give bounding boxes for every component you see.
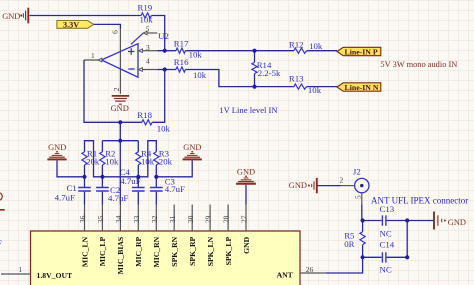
wire R1 top jog over to mid segment and R3 top jog bbox=[85, 141, 157, 177]
wire pin4 node down to R18 bbox=[152, 70, 165, 123]
svg-text:GND: GND bbox=[289, 181, 307, 190]
svg-text:32: 32 bbox=[150, 215, 159, 223]
junction C1 node bbox=[82, 175, 86, 179]
svg-text:20k: 20k bbox=[159, 157, 173, 167]
wire MIC_BIAS from bias node to pin 34 bbox=[119, 141, 121, 205]
svg-text:10k: 10k bbox=[157, 124, 171, 134]
wire R13 to port bbox=[307, 86, 337, 88]
svg-text:4.7uF: 4.7uF bbox=[55, 192, 75, 202]
svg-text:GND: GND bbox=[183, 143, 201, 152]
ground GND pin27 bbox=[236, 167, 256, 183]
svg-text:2.2-5k: 2.2-5k bbox=[258, 68, 281, 78]
wire R2 leads through C2 bbox=[101, 141, 103, 188]
J2 pin 2 bbox=[340, 175, 355, 185]
IC top pins 36..27 bbox=[85, 205, 247, 232]
svg-text:30: 30 bbox=[186, 215, 195, 223]
svg-text:R16: R16 bbox=[174, 57, 189, 67]
svg-text:4.7uF: 4.7uF bbox=[165, 184, 185, 194]
svg-text:GND: GND bbox=[48, 143, 66, 152]
svg-text:33: 33 bbox=[132, 215, 141, 223]
port Line-IN P bbox=[337, 47, 381, 56]
junction C2 node bbox=[100, 175, 104, 179]
wire C13 gnd node down to C14 right bbox=[406, 221, 408, 258]
junction R14 bottom bbox=[252, 85, 256, 89]
op-amp U1 pins 6 and 2 vertical pin line bbox=[119, 29, 121, 94]
wire R12 to port bbox=[307, 50, 337, 52]
resistor R14 bbox=[252, 51, 281, 87]
svg-text:5: 5 bbox=[146, 25, 150, 34]
resistor R16 bbox=[174, 57, 207, 80]
svg-text:1.8V_OUT: 1.8V_OUT bbox=[37, 271, 74, 280]
ground GND at J2 pin2 bbox=[289, 178, 317, 193]
svg-text:U2: U2 bbox=[158, 31, 169, 41]
svg-text:MIC_RP: MIC_RP bbox=[134, 236, 143, 266]
svg-text:2: 2 bbox=[340, 175, 344, 184]
svg-text:R13: R13 bbox=[289, 74, 304, 84]
pin 4 inverting input bbox=[139, 56, 158, 71]
IC pin 1 1.8V_OUT bbox=[1, 265, 73, 280]
wire R19 right corner down to pin3 node bbox=[151, 16, 164, 51]
svg-text:1: 1 bbox=[19, 265, 23, 274]
svg-text:NC: NC bbox=[380, 264, 392, 274]
svg-text:GND: GND bbox=[242, 236, 251, 254]
IC pin 26 ANT bbox=[277, 265, 326, 280]
svg-text:31: 31 bbox=[168, 215, 177, 223]
wire R16 jog down to Line-IN N row bbox=[185, 70, 294, 87]
resistor R3 bbox=[154, 149, 173, 167]
connector J2 bbox=[353, 167, 369, 193]
svg-text:35: 35 bbox=[96, 215, 105, 223]
junction C13 node bbox=[361, 218, 365, 222]
wire 3.3V to op-amp pin 6 bbox=[94, 24, 121, 28]
ground GND top-left power symbol bbox=[2, 8, 28, 24]
resistor R17 bbox=[174, 38, 203, 59]
svg-text:3: 3 bbox=[146, 43, 150, 52]
svg-text:4.7uF: 4.7uF bbox=[120, 176, 140, 186]
svg-text:3.3V: 3.3V bbox=[63, 20, 79, 29]
svg-text:R19: R19 bbox=[138, 2, 153, 12]
IC U1 block bbox=[31, 231, 301, 285]
pin 3 non-inverting input bbox=[139, 43, 158, 52]
svg-text:26: 26 bbox=[306, 265, 314, 274]
svg-text:GND: GND bbox=[448, 218, 466, 227]
wire pin3 node to R17 bbox=[158, 50, 176, 52]
svg-text:MIC_LN: MIC_LN bbox=[80, 236, 89, 267]
svg-text:2: 2 bbox=[112, 87, 121, 91]
resistor R19 bbox=[138, 2, 154, 24]
svg-text:10k: 10k bbox=[105, 157, 119, 167]
svg-text:0R: 0R bbox=[344, 239, 354, 249]
svg-text:10k: 10k bbox=[140, 15, 154, 25]
junction pin3 node bbox=[163, 49, 167, 53]
wire GND right to C3/R3 node bbox=[156, 160, 192, 176]
svg-text:NC: NC bbox=[380, 228, 392, 238]
svg-text:GND: GND bbox=[2, 12, 20, 21]
junction C14 node bbox=[361, 255, 365, 259]
svg-text:MIC_RN: MIC_RN bbox=[152, 236, 161, 267]
svg-text:4.7uF: 4.7uF bbox=[108, 193, 128, 203]
svg-text:36: 36 bbox=[78, 215, 87, 223]
svg-text:Line-IN N: Line-IN N bbox=[345, 83, 379, 92]
svg-text:F: F bbox=[0, 238, 2, 248]
svg-text:5V 3W mono audio IN: 5V 3W mono audio IN bbox=[380, 60, 457, 69]
wire pin27 GND to pin bbox=[245, 185, 247, 205]
J2 pin 5 bbox=[353, 193, 362, 205]
edge artifact maroon arc left bbox=[0, 193, 2, 201]
svg-text:1V Line level IN: 1V Line level IN bbox=[219, 105, 278, 115]
resistor R4 bbox=[136, 149, 155, 167]
svg-text:SPK_LN: SPK_LN bbox=[206, 236, 215, 266]
svg-text:5: 5 bbox=[353, 195, 362, 199]
capacitor C2 bbox=[96, 185, 128, 203]
wire C13 right to GND bbox=[387, 220, 434, 222]
svg-text:SPK_RP: SPK_RP bbox=[188, 237, 197, 266]
svg-text:10k: 10k bbox=[309, 41, 323, 51]
resistor R1 bbox=[82, 149, 100, 167]
junction R18 row bbox=[118, 120, 122, 124]
resistor R2 bbox=[100, 149, 119, 167]
wire R1 bottom / C1 top bbox=[84, 165, 86, 187]
svg-text:R12: R12 bbox=[289, 40, 304, 50]
svg-text:GND: GND bbox=[237, 167, 255, 176]
svg-text:SPK_RN: SPK_RN bbox=[170, 236, 179, 266]
resistor R18 bbox=[137, 110, 170, 134]
wire J2 down to C13 node bbox=[362, 205, 382, 221]
pin 1 output pin bbox=[84, 51, 102, 62]
svg-text:6: 6 bbox=[111, 30, 120, 34]
svg-text:J2: J2 bbox=[353, 167, 361, 177]
svg-text:R18: R18 bbox=[137, 110, 152, 120]
svg-text:34: 34 bbox=[114, 215, 123, 223]
capacitor C4 bbox=[120, 167, 145, 191]
capacitor C14 bbox=[363, 239, 408, 274]
svg-text:28: 28 bbox=[222, 215, 231, 223]
svg-text:C13: C13 bbox=[380, 204, 395, 214]
op-amp U2 triangle bbox=[102, 31, 169, 77]
wire pin4 node to R16 bbox=[158, 69, 176, 71]
ground GND bias right bbox=[183, 143, 202, 160]
junction R14 top bbox=[252, 49, 256, 53]
svg-text:27: 27 bbox=[240, 215, 249, 223]
wire R17 to R12 row bbox=[185, 50, 294, 52]
junction pin4 node bbox=[163, 67, 167, 71]
junction C3 node bbox=[154, 175, 158, 179]
svg-text:C14: C14 bbox=[380, 239, 395, 249]
svg-text:10k: 10k bbox=[193, 70, 207, 80]
wire bias top node R2 to R4 bbox=[102, 140, 138, 142]
svg-text:ANT: ANT bbox=[277, 271, 294, 280]
wire R3 bottom / C3 top bbox=[155, 165, 157, 187]
svg-text:1: 1 bbox=[91, 51, 95, 60]
wire cap bottoms to IC pins bbox=[85, 192, 157, 205]
svg-text:SPK_LP: SPK_LP bbox=[224, 237, 233, 266]
resistor R12 bbox=[289, 40, 323, 54]
wire down to bias node bbox=[119, 122, 121, 140]
junction C14 right bbox=[405, 255, 409, 259]
svg-text:R17: R17 bbox=[174, 38, 189, 48]
resistor R5 bbox=[344, 221, 365, 258]
resistor R13 bbox=[289, 74, 322, 95]
ground GND bias left bbox=[47, 143, 66, 160]
svg-text:29: 29 bbox=[204, 215, 213, 223]
svg-text:GND: GND bbox=[111, 104, 129, 113]
capacitor C13 bbox=[380, 204, 395, 238]
power port 3.3V bbox=[57, 20, 94, 29]
wire feedback from pin1 to R18 bbox=[84, 60, 142, 122]
wire GND to J2 pin2 bbox=[318, 185, 341, 187]
svg-text:MIC_LP: MIC_LP bbox=[98, 236, 107, 266]
junction C13 right node bbox=[405, 218, 409, 222]
svg-text:Line-IN P: Line-IN P bbox=[345, 47, 378, 56]
ground GND right of C13 bbox=[434, 212, 466, 230]
svg-text:4: 4 bbox=[146, 56, 150, 65]
wire GND to R19 bbox=[30, 15, 142, 17]
wire pin26 to R5/C14 node bbox=[326, 257, 363, 273]
ground GND under op-amp bbox=[111, 96, 130, 113]
port Line-IN N bbox=[337, 83, 381, 92]
capacitor C1 bbox=[55, 183, 91, 202]
capacitor C3 bbox=[150, 177, 185, 195]
wire GND left to C1/R1 node bbox=[57, 160, 85, 176]
junction bias top node bbox=[118, 139, 122, 143]
pin 5 bbox=[131, 25, 157, 45]
junction C4 node bbox=[136, 175, 140, 179]
wire R4 leads through C4 bbox=[137, 141, 139, 188]
svg-text:MIC_BIAS: MIC_BIAS bbox=[116, 237, 125, 275]
